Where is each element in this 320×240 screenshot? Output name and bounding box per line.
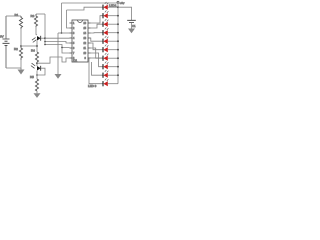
wire LED4 to rail xyxy=(108,32,118,34)
resistor R3 xyxy=(34,14,37,35)
IC U1 pin numbers left xyxy=(73,23,75,60)
LED8 xyxy=(103,61,108,69)
+9V power rail xyxy=(117,1,119,84)
rail junction dots xyxy=(117,6,119,76)
wire pin16 to LED2 xyxy=(91,16,104,23)
wire pin10 to LED8 xyxy=(91,53,104,67)
LED1 xyxy=(103,2,108,10)
junction dot y41.5 xyxy=(44,41,46,43)
LED2 xyxy=(103,10,108,18)
ground middle xyxy=(55,74,62,79)
wire to capacitor xyxy=(118,7,132,20)
wire LED1 to rail xyxy=(108,6,118,8)
wire inner top line to LED1 xyxy=(67,7,104,10)
capacitor C1 xyxy=(127,20,136,28)
wire pin9 row to LED7 xyxy=(91,57,104,59)
resistor R2 xyxy=(19,46,22,69)
battery B1 xyxy=(3,16,10,68)
wire LED6 to rail xyxy=(108,49,118,51)
wire LED10 to rail xyxy=(108,83,118,85)
LED7 xyxy=(103,53,108,61)
wire LED3 to rail xyxy=(108,23,118,25)
junction dot pin5/6 tie xyxy=(61,47,63,49)
wire top vdd rail xyxy=(62,2,119,4)
IC U1 body xyxy=(72,20,88,62)
svg-text:9V: 9V xyxy=(0,35,4,39)
svg-text:LED1: LED1 xyxy=(109,4,117,8)
wire pin6 tie xyxy=(62,48,70,54)
wire bus y44.5 xyxy=(45,45,70,48)
wire clock node to IC xyxy=(37,57,70,63)
resistor R1 xyxy=(19,16,22,46)
resistor R4 xyxy=(35,52,38,66)
svg-text:IC1: IC1 xyxy=(73,59,78,63)
wire top rail 2 xyxy=(36,13,45,15)
IC U1 right pins xyxy=(88,23,91,58)
wire under IC to LED9 xyxy=(92,62,104,75)
diode D2 xyxy=(31,63,41,70)
LED5 xyxy=(103,36,108,44)
wire D1 cathode to node xyxy=(41,37,45,39)
wire D2 anode down xyxy=(36,71,38,80)
wire inner drop to pin2 xyxy=(67,10,70,28)
wire pin13 to LED5 xyxy=(91,38,104,41)
LED3 xyxy=(103,19,108,27)
resistor R5 xyxy=(35,79,38,93)
junction dot at N1 wire xyxy=(36,45,38,47)
wire LED8 to rail xyxy=(108,66,118,68)
wire under IC to LED10 xyxy=(89,58,103,84)
svg-text:+9v: +9v xyxy=(120,1,125,5)
wire D1 anode down xyxy=(36,41,38,53)
svg-text:C1: C1 xyxy=(132,24,136,28)
svg-text:LED 9: LED 9 xyxy=(88,84,97,88)
junction dot clock node xyxy=(36,62,38,64)
svg-text:R3: R3 xyxy=(31,14,35,18)
wire pin3 row xyxy=(58,32,70,34)
wire top-left rail xyxy=(6,15,21,17)
ground bottom left xyxy=(34,93,41,98)
wire clock bus y38 to pin xyxy=(45,37,70,39)
wire pin14 to LED4 xyxy=(91,32,104,34)
ground right xyxy=(128,29,135,34)
IC U1 left pins xyxy=(70,23,73,58)
wire LED2 to rail xyxy=(108,15,118,17)
wire battery negative to ground xyxy=(6,67,21,69)
LED4 xyxy=(103,27,108,35)
wire D2 cathode loop xyxy=(37,68,45,75)
ground left xyxy=(18,68,25,75)
wire pin11 to LED7 xyxy=(91,48,104,58)
LED9 xyxy=(103,70,108,78)
svg-text:R1: R1 xyxy=(15,13,19,17)
wire LED7 to rail xyxy=(108,57,118,59)
svg-text:R2: R2 xyxy=(14,47,18,51)
junction dot loop xyxy=(36,74,38,76)
wire bus y41.5 xyxy=(45,42,70,44)
junction dot vdd xyxy=(61,32,63,34)
junction dot xyxy=(44,37,46,39)
wire vertical from rail2 xyxy=(44,14,46,45)
diode D1 (photodiode) xyxy=(32,36,41,43)
junction dot y44.5 xyxy=(44,44,46,46)
wire LED5 to rail xyxy=(108,40,118,42)
wire vdd drop to pin row xyxy=(61,3,63,33)
wire pin15 to LED3 xyxy=(91,24,104,28)
LED10 xyxy=(103,78,108,86)
svg-text:R5: R5 xyxy=(30,75,34,79)
wire node N1 to D-column xyxy=(21,45,37,47)
svg-text:R4: R4 xyxy=(31,49,35,53)
node N1 junction dot xyxy=(20,45,22,47)
IC U1 pin numbers right xyxy=(84,23,87,60)
wire ground vertical xyxy=(57,33,59,74)
LED6 xyxy=(103,44,108,52)
wire LED9 to rail xyxy=(108,74,118,76)
wire pin12 to LED6 xyxy=(91,43,104,50)
